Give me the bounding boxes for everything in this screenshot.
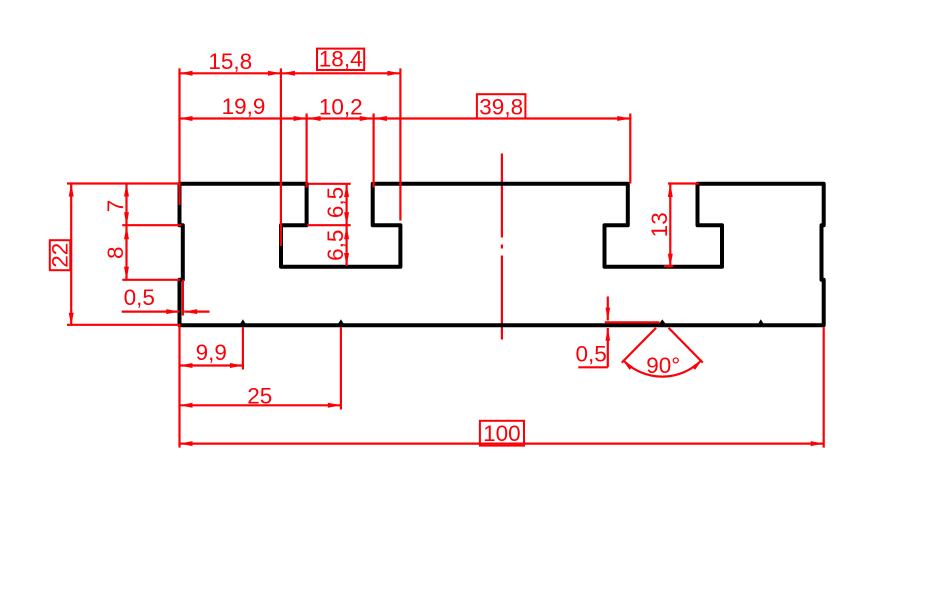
svg-text:39,8: 39,8 <box>479 95 523 120</box>
svg-text:6,5: 6,5 <box>323 230 348 261</box>
svg-text:25: 25 <box>247 384 272 409</box>
svg-text:90°: 90° <box>646 353 680 378</box>
svg-text:7: 7 <box>103 200 128 213</box>
svg-text:22: 22 <box>47 243 72 268</box>
svg-text:19,9: 19,9 <box>222 94 266 119</box>
svg-text:0,5: 0,5 <box>124 285 155 310</box>
svg-text:100: 100 <box>483 421 521 446</box>
svg-text:15,8: 15,8 <box>208 49 252 74</box>
svg-text:8: 8 <box>103 246 128 259</box>
svg-text:13: 13 <box>647 212 672 237</box>
svg-text:6,5: 6,5 <box>323 187 348 218</box>
svg-text:0,5: 0,5 <box>576 341 607 366</box>
svg-text:9,9: 9,9 <box>196 340 227 365</box>
svg-text:18,4: 18,4 <box>319 47 363 72</box>
svg-text:10,2: 10,2 <box>319 94 363 119</box>
